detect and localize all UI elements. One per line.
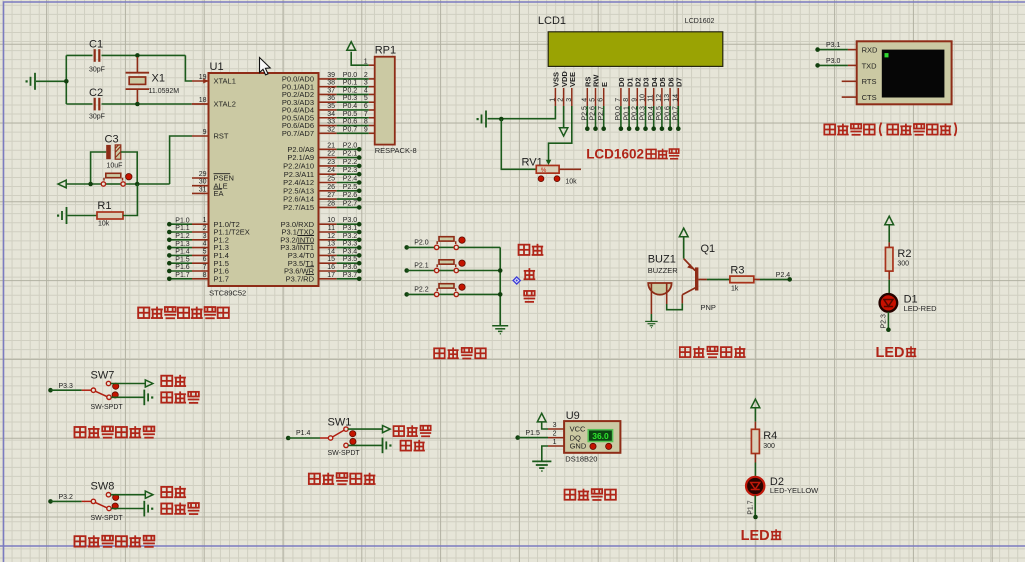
svg-text:U1: U1 xyxy=(210,61,224,73)
svg-text:7: 7 xyxy=(364,111,368,118)
svg-text:37: 37 xyxy=(327,87,335,94)
svg-text:P1.0: P1.0 xyxy=(175,217,190,224)
svg-text:P1.4: P1.4 xyxy=(175,249,190,256)
svg-text:P0.3: P0.3 xyxy=(640,106,647,121)
svg-text:33: 33 xyxy=(327,119,335,126)
svg-text:1: 1 xyxy=(203,217,207,224)
svg-text:P2.6: P2.6 xyxy=(590,106,597,121)
svg-text:16: 16 xyxy=(327,264,335,271)
svg-text:SW1: SW1 xyxy=(328,417,352,429)
svg-text:P1.5: P1.5 xyxy=(175,256,190,263)
svg-text:36.0: 36.0 xyxy=(592,431,609,441)
svg-text:15: 15 xyxy=(327,256,335,263)
svg-text:P0.0: P0.0 xyxy=(615,106,622,121)
svg-text:P2.1: P2.1 xyxy=(414,263,429,270)
svg-text:36: 36 xyxy=(327,95,335,102)
svg-text:P0.7: P0.7 xyxy=(673,106,680,121)
svg-text:1: 1 xyxy=(364,58,368,65)
svg-text:XTAL1: XTAL1 xyxy=(214,77,236,86)
svg-text:4: 4 xyxy=(203,241,207,248)
svg-text:VEE: VEE xyxy=(568,72,577,87)
svg-text:DS18B20: DS18B20 xyxy=(565,455,597,464)
svg-text:SW-SPDT: SW-SPDT xyxy=(328,450,361,457)
svg-text:RST: RST xyxy=(214,132,229,141)
svg-text:2: 2 xyxy=(553,431,557,438)
svg-text:P0.5: P0.5 xyxy=(343,111,358,118)
svg-text:11: 11 xyxy=(648,94,655,101)
svg-text:P1.7: P1.7 xyxy=(214,274,229,283)
svg-text:2: 2 xyxy=(364,72,368,79)
svg-text:P1.7: P1.7 xyxy=(175,272,190,279)
svg-text:P3.7/RD: P3.7/RD xyxy=(286,274,315,283)
svg-text:P3.1: P3.1 xyxy=(826,42,841,49)
svg-text:P0.0: P0.0 xyxy=(343,72,358,79)
svg-text:RESPACK-8: RESPACK-8 xyxy=(375,146,417,155)
svg-text:1: 1 xyxy=(549,98,556,102)
svg-text:U9: U9 xyxy=(566,410,580,422)
svg-text:10: 10 xyxy=(327,217,335,224)
svg-text:8: 8 xyxy=(623,98,630,102)
svg-text:LED-YELLOW: LED-YELLOW xyxy=(770,486,819,495)
svg-text:38: 38 xyxy=(327,80,335,87)
svg-text:10k: 10k xyxy=(565,179,577,186)
svg-text:5: 5 xyxy=(203,248,207,255)
svg-text:PNP: PNP xyxy=(701,303,716,312)
svg-text:P0.4: P0.4 xyxy=(343,103,358,110)
svg-text:Q1: Q1 xyxy=(701,243,716,255)
svg-text:30: 30 xyxy=(199,179,207,186)
svg-text:5: 5 xyxy=(590,98,597,102)
svg-text:9: 9 xyxy=(364,126,368,133)
svg-text:6: 6 xyxy=(203,256,207,263)
svg-text:GND: GND xyxy=(570,442,587,451)
svg-text:24: 24 xyxy=(327,167,335,174)
svg-text:P1.1: P1.1 xyxy=(175,225,190,232)
svg-text:P0.7: P0.7 xyxy=(343,126,358,133)
svg-text:300: 300 xyxy=(763,443,775,450)
svg-text:P0.2: P0.2 xyxy=(343,87,358,94)
svg-text:E: E xyxy=(600,82,609,87)
svg-text:LCD1: LCD1 xyxy=(538,15,566,27)
svg-text:P2.3: P2.3 xyxy=(881,314,888,329)
svg-text:P3.1: P3.1 xyxy=(343,225,358,232)
svg-text:SW-SPDT: SW-SPDT xyxy=(91,404,124,411)
svg-text:1: 1 xyxy=(553,439,557,446)
svg-text:4: 4 xyxy=(581,98,588,102)
svg-text:R3: R3 xyxy=(730,264,744,276)
svg-text:34: 34 xyxy=(327,111,335,118)
svg-text:LED: LED xyxy=(741,528,770,544)
svg-text:6: 6 xyxy=(364,103,368,110)
svg-text:P2.0: P2.0 xyxy=(343,142,358,149)
svg-text:RTS: RTS xyxy=(862,77,877,86)
svg-text:P1.5: P1.5 xyxy=(526,430,541,437)
svg-text:30pF: 30pF xyxy=(89,114,105,121)
svg-text:LCD1602: LCD1602 xyxy=(586,147,644,162)
svg-text:C3: C3 xyxy=(105,134,119,146)
svg-text:P2.5: P2.5 xyxy=(343,184,358,191)
svg-text:32: 32 xyxy=(327,126,335,133)
svg-text:LED: LED xyxy=(876,345,905,361)
svg-text:P0.1: P0.1 xyxy=(623,106,630,121)
svg-text:12: 12 xyxy=(327,233,335,240)
svg-text:10k: 10k xyxy=(98,221,110,228)
svg-text:1k: 1k xyxy=(731,286,739,293)
svg-text:4: 4 xyxy=(364,87,368,94)
svg-text:RXD: RXD xyxy=(862,45,878,54)
svg-text:P2.7: P2.7 xyxy=(598,106,605,121)
svg-text:P3.6: P3.6 xyxy=(343,264,358,271)
svg-text:10: 10 xyxy=(640,94,647,102)
svg-text:9: 9 xyxy=(203,129,207,136)
svg-text:P2.2: P2.2 xyxy=(343,159,358,166)
svg-text:22: 22 xyxy=(327,151,335,158)
svg-text:P2.0: P2.0 xyxy=(414,240,429,247)
svg-text:28: 28 xyxy=(327,200,335,207)
svg-text:7: 7 xyxy=(203,264,207,271)
svg-text:P3.0: P3.0 xyxy=(343,217,358,224)
svg-text:STC89C52: STC89C52 xyxy=(209,288,246,297)
svg-text:P2.4: P2.4 xyxy=(343,176,358,183)
svg-text:14: 14 xyxy=(672,94,679,102)
svg-text:9: 9 xyxy=(631,98,638,102)
svg-text:P3.7: P3.7 xyxy=(343,272,358,279)
svg-text:5: 5 xyxy=(364,95,368,102)
svg-text:11.0592M: 11.0592M xyxy=(149,88,180,95)
svg-text:D7: D7 xyxy=(675,77,684,87)
svg-text:P3.3: P3.3 xyxy=(59,383,74,390)
svg-text:P0.2: P0.2 xyxy=(632,106,639,121)
svg-text:14: 14 xyxy=(327,248,335,255)
svg-text:P0.6: P0.6 xyxy=(343,119,358,126)
svg-text:30pF: 30pF xyxy=(89,67,105,74)
svg-text:2: 2 xyxy=(203,225,207,232)
svg-text:P2.2: P2.2 xyxy=(414,287,429,294)
svg-text:P3.4: P3.4 xyxy=(343,248,358,255)
svg-text:17: 17 xyxy=(327,272,335,279)
svg-text:P2.5: P2.5 xyxy=(582,106,589,121)
svg-text:CTS: CTS xyxy=(862,93,877,102)
svg-text:P3.2: P3.2 xyxy=(343,233,358,240)
svg-text:BUZ1: BUZ1 xyxy=(648,254,676,266)
svg-text:LED-RED: LED-RED xyxy=(904,304,938,313)
svg-text:3: 3 xyxy=(203,233,207,240)
svg-text:P1.6: P1.6 xyxy=(175,264,190,271)
svg-text:R4: R4 xyxy=(763,430,777,442)
svg-text:XTAL2: XTAL2 xyxy=(214,100,236,109)
svg-text:P3.5: P3.5 xyxy=(343,256,358,263)
svg-text:P0.4: P0.4 xyxy=(648,106,655,121)
svg-text:P2.1: P2.1 xyxy=(343,151,358,158)
svg-text:3: 3 xyxy=(566,98,573,102)
svg-text:6: 6 xyxy=(598,98,605,102)
svg-text:P3.2: P3.2 xyxy=(59,494,74,501)
svg-text:8: 8 xyxy=(364,119,368,126)
svg-text:18: 18 xyxy=(199,97,207,104)
svg-text:11: 11 xyxy=(328,225,335,232)
svg-text:27: 27 xyxy=(327,192,335,199)
svg-text:P0.5: P0.5 xyxy=(656,106,663,121)
svg-text:300: 300 xyxy=(897,261,909,268)
svg-text:P2.7/A15: P2.7/A15 xyxy=(283,203,314,212)
svg-text:7: 7 xyxy=(615,98,622,102)
svg-text:P2.6: P2.6 xyxy=(343,192,358,199)
svg-text:2: 2 xyxy=(558,98,565,102)
svg-text:P3.3: P3.3 xyxy=(343,241,358,248)
svg-text:TXD: TXD xyxy=(862,61,878,70)
svg-text:25: 25 xyxy=(327,176,335,183)
svg-text:P1.7: P1.7 xyxy=(747,500,754,515)
svg-text:13: 13 xyxy=(664,94,671,102)
svg-text:RP1: RP1 xyxy=(375,45,396,57)
svg-text:SW8: SW8 xyxy=(91,481,115,493)
svg-text:3: 3 xyxy=(364,80,368,87)
svg-text:29: 29 xyxy=(199,171,207,178)
svg-text:8: 8 xyxy=(203,272,207,279)
svg-text:13: 13 xyxy=(327,241,335,248)
svg-text:31: 31 xyxy=(199,186,207,193)
svg-text:R2: R2 xyxy=(897,248,911,260)
svg-text:P2.3: P2.3 xyxy=(343,167,358,174)
svg-text:SW-SPDT: SW-SPDT xyxy=(91,515,124,522)
svg-text:LCD1602: LCD1602 xyxy=(685,18,715,25)
svg-text:P2.4: P2.4 xyxy=(776,272,791,279)
svg-text:P1.4: P1.4 xyxy=(296,430,311,437)
svg-text:3: 3 xyxy=(553,422,557,429)
svg-text:BUZZER: BUZZER xyxy=(648,266,679,275)
svg-text:X1: X1 xyxy=(152,73,165,85)
svg-text:P1.2: P1.2 xyxy=(175,233,190,240)
svg-text:%: % xyxy=(541,168,547,174)
svg-text:39: 39 xyxy=(327,72,335,79)
svg-text:R1: R1 xyxy=(97,200,111,212)
svg-text:P0.3: P0.3 xyxy=(343,95,358,102)
svg-text:EA: EA xyxy=(214,189,224,198)
svg-text:23: 23 xyxy=(327,159,335,166)
svg-text:35: 35 xyxy=(327,103,335,110)
svg-text:26: 26 xyxy=(327,184,335,191)
svg-text:P0.6: P0.6 xyxy=(664,106,671,121)
svg-text:P3.0: P3.0 xyxy=(826,58,841,65)
svg-text:12: 12 xyxy=(656,94,663,102)
svg-text:C2: C2 xyxy=(89,87,103,99)
svg-text:P0.1: P0.1 xyxy=(343,80,358,87)
svg-text:P0.7/AD7: P0.7/AD7 xyxy=(282,129,314,138)
svg-text:SW7: SW7 xyxy=(91,370,115,382)
svg-text:P2.7: P2.7 xyxy=(343,200,358,207)
svg-text:C1: C1 xyxy=(89,39,103,51)
svg-text:P1.3: P1.3 xyxy=(175,241,190,248)
svg-text:21: 21 xyxy=(327,142,335,149)
svg-text:10uF: 10uF xyxy=(107,163,123,170)
